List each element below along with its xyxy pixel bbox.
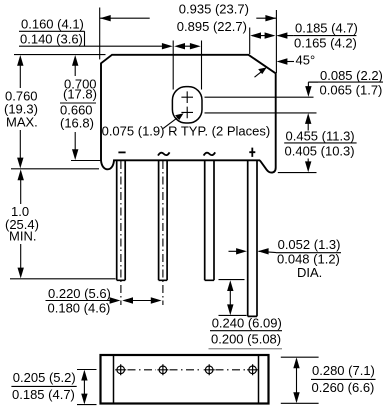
hole width extension lines <box>173 41 201 90</box>
svg-text:0.220 (5.6): 0.220 (5.6) <box>48 286 111 301</box>
bottom view outer body <box>101 355 269 404</box>
svg-text:0.935 (23.7): 0.935 (23.7) <box>179 2 249 17</box>
hole center extension line lower <box>205 112 317 114</box>
45 degree diagonal arrow <box>255 71 263 77</box>
pin label ac 2 <box>204 152 216 155</box>
svg-text:0.200 (5.08): 0.200 (5.08) <box>211 331 281 346</box>
dim 0.220/0.180 leader <box>46 300 112 302</box>
lead4 bottom extension line <box>219 314 247 316</box>
hole width dimension arrows <box>177 45 198 47</box>
svg-text:(16.8): (16.8) <box>60 116 94 131</box>
dim 0.760 dimension line lower <box>19 130 21 165</box>
dim 0.205/0.185 reference ticks <box>77 370 97 405</box>
dim 0.935/0.895 extension line right <box>275 10 277 73</box>
lead 1 centerline <box>120 161 122 305</box>
bottom view inner line left <box>113 355 115 404</box>
dim 0.160/0.140 leader lines <box>19 31 163 46</box>
dim 0.935/0.895 extension line left <box>99 8 101 60</box>
lead 2 <box>159 160 168 280</box>
bottom view pin 4 <box>247 364 258 375</box>
svg-text:0.895 (22.7): 0.895 (22.7) <box>177 19 247 34</box>
svg-text:0.280 (7.1): 0.280 (7.1) <box>312 363 375 378</box>
pin label minus <box>118 151 125 153</box>
svg-text:0.085 (2.2): 0.085 (2.2) <box>320 68 383 83</box>
dim 0.935/0.895 dimension line <box>100 17 277 19</box>
dim 0.455/0.405 dimension line <box>307 116 309 169</box>
lead 4 <box>248 160 257 316</box>
bottom view pin 2 <box>157 364 168 375</box>
bottom view pin 1 <box>115 364 126 375</box>
dim 0.185/0.165 extension line <box>249 28 251 55</box>
dim 0.052/0.048 arrows <box>229 251 277 252</box>
dim 0.280/0.260 extension lines <box>281 357 319 403</box>
svg-text:MIN.: MIN. <box>9 229 36 244</box>
dim 0.240/0.200 dimension line <box>229 283 231 312</box>
pin label ac 1 <box>158 152 170 155</box>
svg-text:(17.8): (17.8) <box>63 87 97 102</box>
body low point extension line right <box>278 172 317 174</box>
dim 0.700/0.660 dimension line lower <box>74 132 76 156</box>
bottom view pin 3 <box>204 364 215 375</box>
lead3 bottom extension line <box>219 279 245 281</box>
svg-text:45°: 45° <box>296 53 316 68</box>
svg-text:0.075 (1.9) R TYP. (2 Places): 0.075 (1.9) R TYP. (2 Places) <box>102 124 271 139</box>
dim 0.280/0.260 dimension line <box>296 359 298 402</box>
body bottom reference line short <box>71 160 101 162</box>
dim 0.075 R leader <box>163 116 180 129</box>
svg-text:0.065 (1.7): 0.065 (1.7) <box>320 82 383 97</box>
dim 0.700/0.660 dimension line upper <box>74 58 76 76</box>
body outline <box>101 55 276 173</box>
svg-text:0.180 (4.6): 0.180 (4.6) <box>48 300 111 315</box>
dim 1.0 MIN dimension line upper <box>20 173 22 205</box>
hole center cross lower <box>181 107 193 119</box>
svg-text:0.455 (11.3): 0.455 (11.3) <box>286 128 355 143</box>
mounting hole slot <box>172 87 202 123</box>
svg-text:MAX.: MAX. <box>6 114 38 129</box>
svg-text:0.205 (5.2): 0.205 (5.2) <box>13 370 76 385</box>
lead bottom reference line <box>10 278 116 280</box>
svg-text:DIA.: DIA. <box>297 265 322 280</box>
hole center cross upper <box>181 91 193 103</box>
svg-text:0.260 (6.6): 0.260 (6.6) <box>312 380 375 395</box>
body bottom max reference line <box>11 168 99 170</box>
svg-text:0.140 (3.6): 0.140 (3.6) <box>20 32 83 47</box>
dim 0.205/0.185 dimension line <box>83 372 85 403</box>
dim 0.220/0.180 dimension arrows <box>125 300 159 302</box>
bottom view inner line right <box>258 355 260 404</box>
dim 0.185/0.165 dimension line <box>252 35 294 37</box>
dim 1.0 MIN dimension line lower <box>20 244 22 275</box>
svg-text:0.185 (4.7): 0.185 (4.7) <box>295 21 358 36</box>
dim 0.760 dimension line upper <box>19 58 21 88</box>
svg-text:0.052 (1.3): 0.052 (1.3) <box>278 237 341 252</box>
svg-text:0.240 (6.09): 0.240 (6.09) <box>212 316 282 331</box>
pin label plus <box>249 148 255 157</box>
svg-text:0.165 (4.2): 0.165 (4.2) <box>294 36 357 51</box>
45 degree leader arrow <box>281 61 294 63</box>
bottom view centerline dashes <box>128 369 247 371</box>
svg-text:0.405 (10.3): 0.405 (10.3) <box>285 143 355 158</box>
hole center extension line upper <box>205 96 314 98</box>
svg-text:0.185 (4.7): 0.185 (4.7) <box>12 387 75 402</box>
dim 0.760 top reference line <box>14 54 106 56</box>
lead 1 <box>117 160 126 280</box>
dim 0.160/0.140 leader arrow <box>162 43 173 49</box>
svg-text:0.160 (4.1): 0.160 (4.1) <box>21 17 84 32</box>
dim 0.085/0.065 leader with down arrow <box>308 82 318 93</box>
lead 2 centerline <box>162 161 164 305</box>
lead 3 <box>205 160 214 280</box>
